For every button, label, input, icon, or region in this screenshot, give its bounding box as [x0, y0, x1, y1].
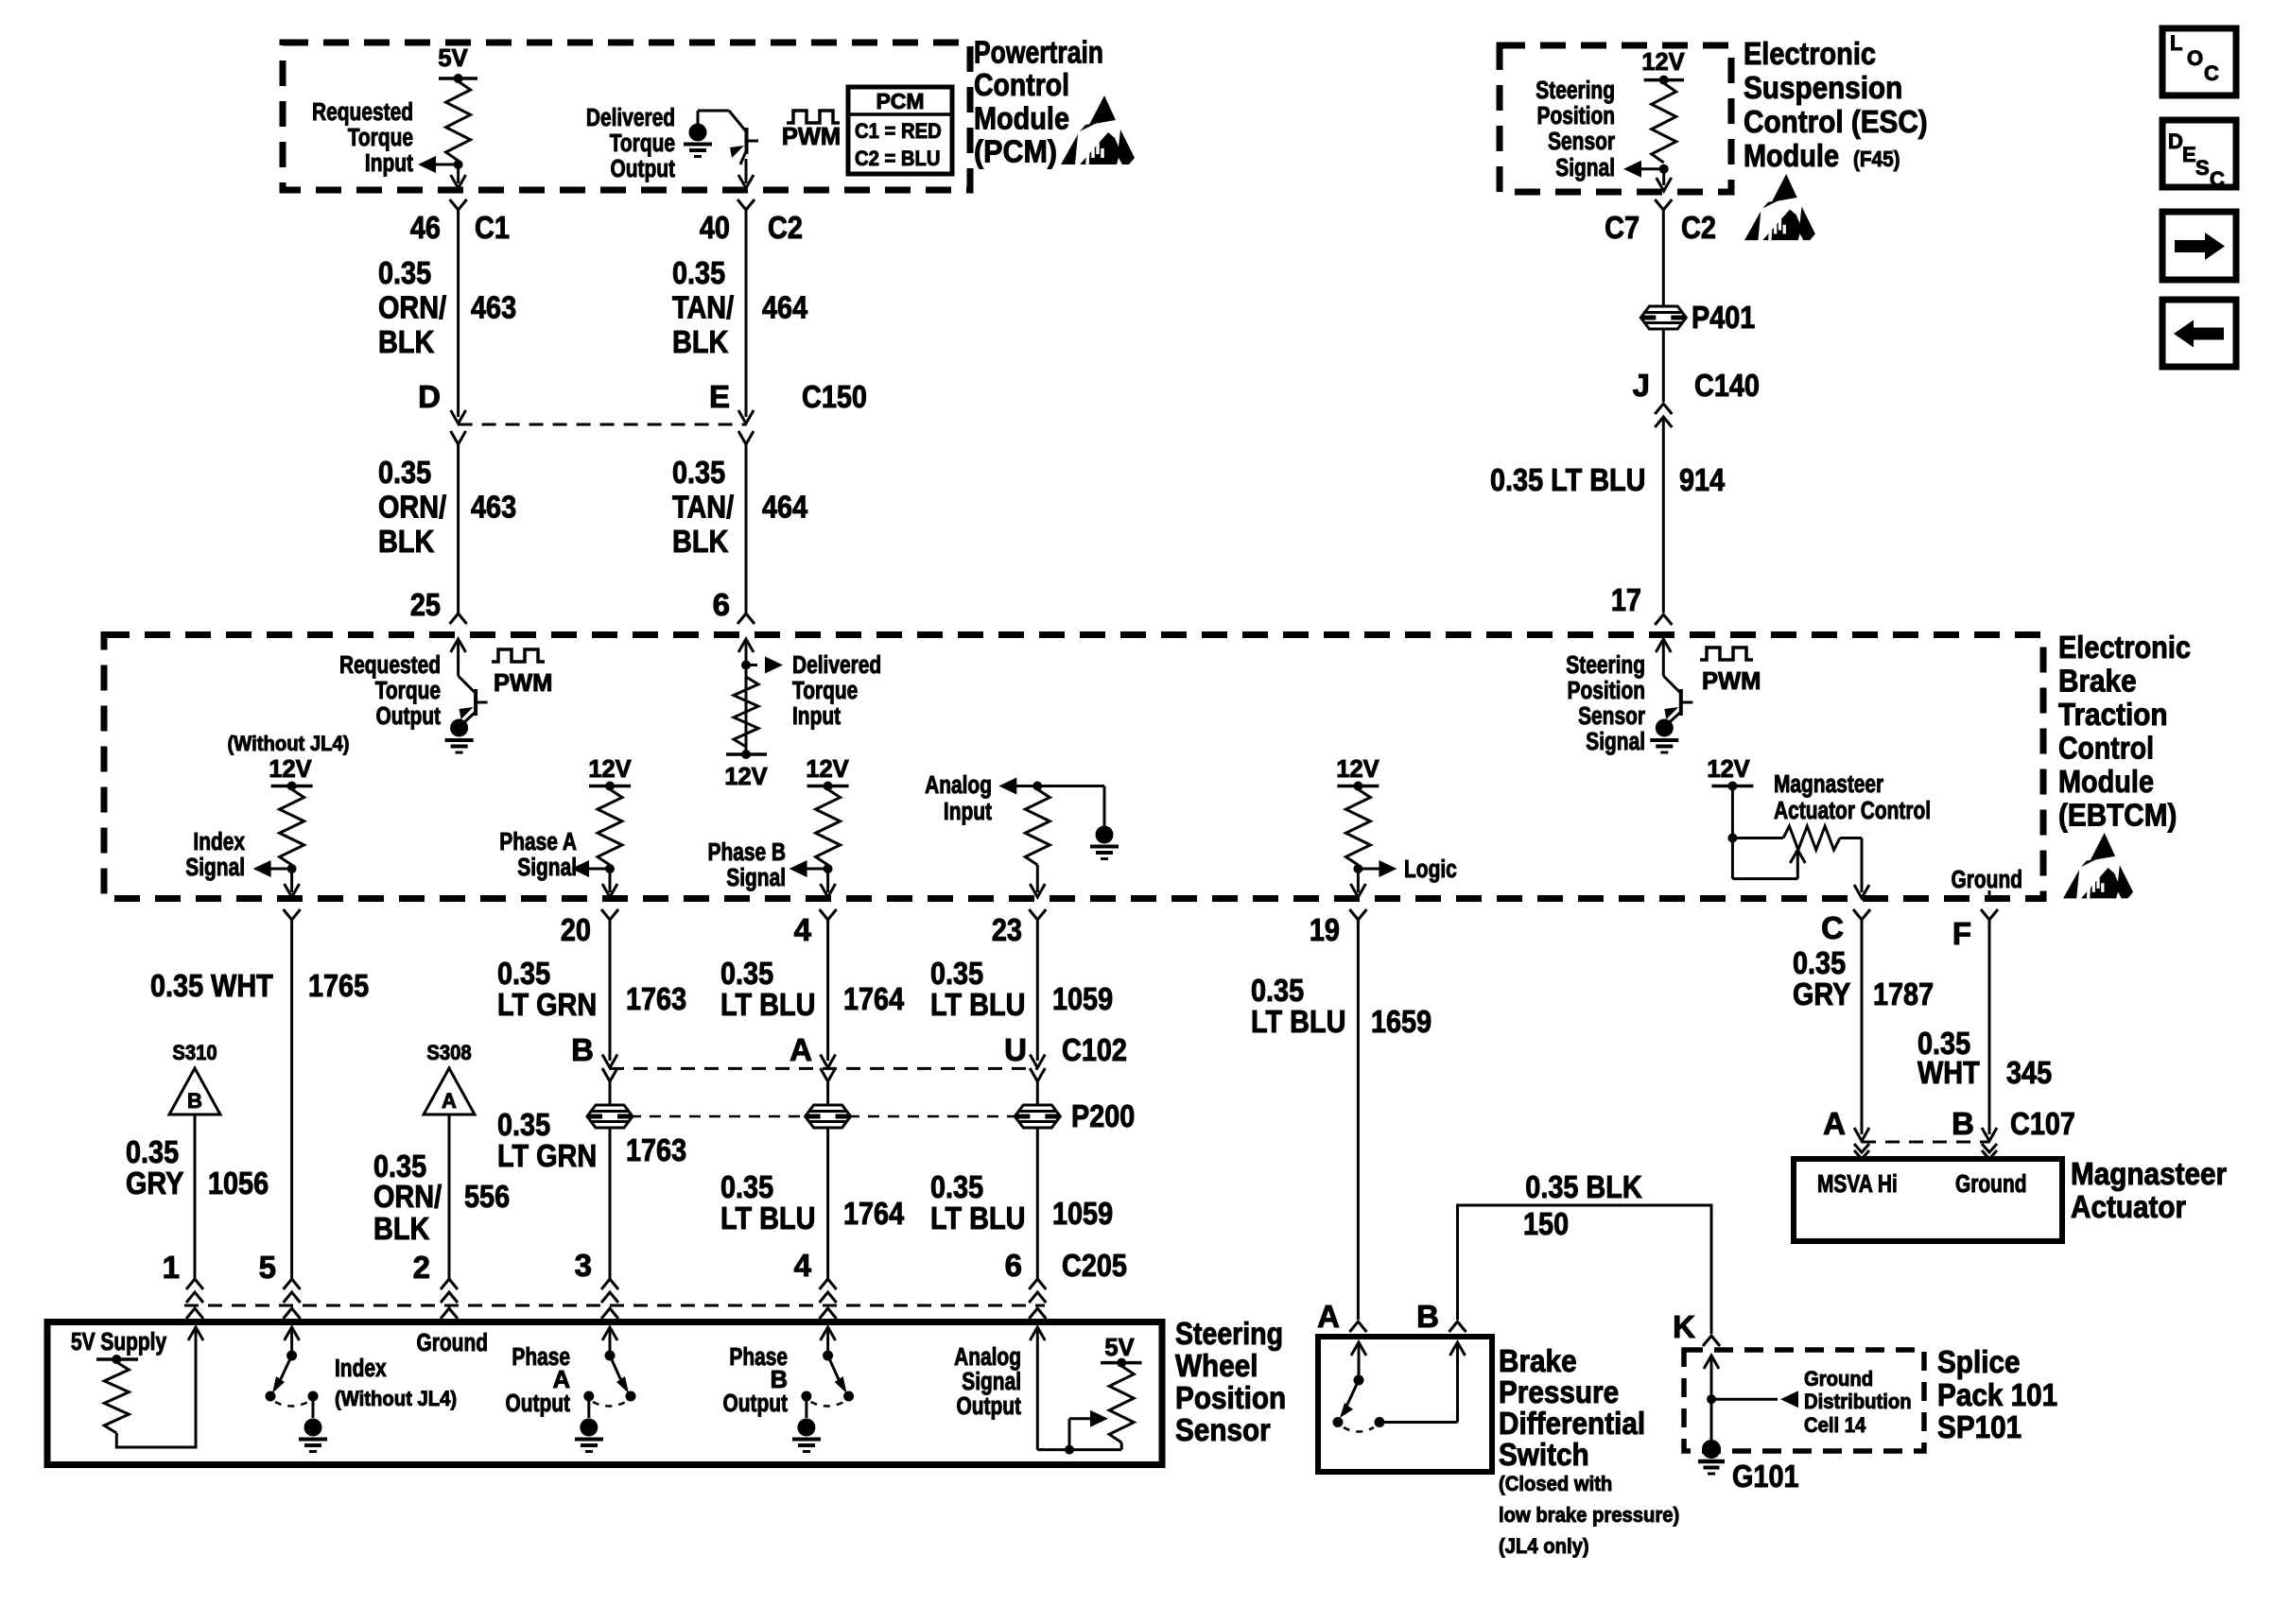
svg-text:3: 3 [575, 1248, 592, 1283]
wire: circuit 1059 lower [1036, 1128, 1039, 1279]
in-line connector C107 dashed line [1862, 1141, 1989, 1144]
svg-text:Sensor: Sensor [1548, 129, 1615, 155]
svg-text:Pressure: Pressure [1499, 1374, 1619, 1409]
junction dot on wire 463 [454, 160, 463, 169]
junction dot Phase A [605, 864, 615, 873]
module box: Electronic Brake Traction Control Module (EBTCM), dashed [104, 635, 2043, 899]
connector chevron BPDS pin A [1349, 1322, 1366, 1332]
svg-text:K: K [1673, 1309, 1695, 1344]
in-line connector C205 dashed line [184, 1304, 1045, 1307]
PCM connector table [848, 87, 952, 174]
wire: Analog pin exit [1036, 865, 1039, 892]
wire: circuit 1765 [290, 919, 293, 1279]
svg-text:Sensor: Sensor [1175, 1412, 1271, 1447]
connector symbol at PCM pin 40 [737, 199, 755, 210]
svg-text:A: A [553, 1367, 570, 1393]
in-line connector C102 dashed line [610, 1067, 1037, 1070]
P200 bead (Phase B) [806, 1105, 851, 1128]
button: arrow right [2162, 212, 2236, 280]
connector symbol at EBTCM pin 17 [1655, 614, 1672, 625]
svg-text:Signal: Signal [726, 865, 786, 891]
svg-text:Wheel: Wheel [1175, 1348, 1258, 1383]
svg-text:Ground: Ground [1804, 1367, 1873, 1391]
junction dot Phase B [824, 864, 833, 873]
svg-text:BLK: BLK [378, 524, 434, 559]
connector symbol below EBTCM (Phase A/pin20) [601, 909, 618, 920]
in-line connector P401 bead [1640, 306, 1686, 329]
resistor: Phase A Signal pull-up [598, 789, 622, 865]
resistor: PCM requested torque input pull-up [446, 81, 471, 161]
PWM squarewave glyph (PCM) [787, 111, 840, 123]
svg-text:Signal: Signal [1555, 155, 1615, 181]
svg-text:C140: C140 [1694, 368, 1760, 403]
svg-text:0.35: 0.35 [1793, 945, 1846, 980]
P200 bead (Analog) [1015, 1105, 1060, 1128]
connector chevrons at C205 pin 6 [1029, 1279, 1046, 1289]
signal arrow Phase A Signal [588, 868, 610, 871]
svg-text:A: A [1317, 1299, 1340, 1334]
svg-text:150: 150 [1523, 1206, 1569, 1241]
svg-text:5V: 5V [1104, 1335, 1134, 1361]
12V rail (Delivered Torque) [726, 752, 767, 756]
wire: circuit 1764 lower [826, 1128, 829, 1279]
svg-text:Actuator: Actuator [2071, 1189, 2186, 1224]
svg-text:BLK: BLK [373, 1211, 429, 1246]
wire: Phase A pin exit [609, 869, 612, 892]
svg-text:Index: Index [335, 1356, 387, 1382]
svg-text:A: A [789, 1032, 812, 1067]
wire: circuit 345 (ground) [1988, 919, 1991, 1134]
svg-text:P200: P200 [1071, 1098, 1135, 1133]
svg-text:Cell 14: Cell 14 [1804, 1413, 1866, 1437]
svg-text:S308: S308 [426, 1041, 471, 1064]
svg-text:C102: C102 [1062, 1032, 1127, 1067]
connector below C107 (A) [1854, 1144, 1869, 1152]
junction dot Delivered Torque Input [741, 661, 751, 670]
ESD sensitive device symbol (ESC) [1744, 174, 1815, 240]
svg-text:5V: 5V [438, 45, 467, 72]
svg-text:345: 345 [2006, 1055, 2052, 1090]
svg-text:12V: 12V [1336, 756, 1379, 783]
svg-text:PCM: PCM [876, 89, 924, 113]
connector symbol below EBTCM (Analog/pin23) [1029, 909, 1046, 920]
svg-text:PWM: PWM [494, 670, 552, 697]
module box: Electronic Suspension Control (ESC) Module, dashed [1500, 45, 1731, 192]
signal arrow Analog Input [1015, 785, 1037, 787]
PWM squarewave glyph (EBTCM left) [492, 649, 545, 662]
svg-text:Index: Index [193, 829, 245, 855]
svg-text:0.35: 0.35 [720, 956, 773, 991]
svg-text:23: 23 [992, 912, 1022, 947]
svg-text:0.35: 0.35 [378, 255, 431, 290]
connector symbol below EBTCM (Logic/pin19) [1349, 909, 1366, 920]
svg-text:1659: 1659 [1371, 1004, 1431, 1039]
svg-text:LT GRN: LT GRN [497, 987, 597, 1022]
wire: circuit 1787 (MSVA Hi) [1861, 919, 1864, 1134]
svg-text:C1 = RED: C1 = RED [855, 119, 942, 143]
svg-text:1059: 1059 [1052, 981, 1113, 1016]
connector chevrons at C205 pin 4 [820, 1279, 837, 1289]
svg-text:S310: S310 [172, 1041, 217, 1064]
svg-text:C2 = BLU: C2 = BLU [855, 147, 941, 170]
svg-text:C: C [1821, 910, 1844, 945]
svg-text:C150: C150 [802, 379, 867, 414]
svg-text:Control: Control [2058, 731, 2154, 766]
svg-text:6: 6 [1005, 1248, 1022, 1283]
connector below C102 (B) [602, 1068, 617, 1081]
svg-text:Delivered: Delivered [586, 105, 675, 131]
svg-text:Delivered: Delivered [792, 652, 881, 679]
svg-text:J: J [1633, 368, 1650, 403]
svg-text:4: 4 [794, 912, 812, 947]
svg-text:1: 1 [163, 1250, 180, 1285]
5V rail bar (PCM) [439, 77, 477, 80]
svg-text:Steering: Steering [1566, 652, 1645, 679]
wire: Logic pin exit [1357, 869, 1360, 892]
connector chevrons at C205 pin 2 [441, 1279, 458, 1289]
svg-text:4: 4 [794, 1248, 812, 1283]
svg-text:BLK: BLK [378, 324, 434, 359]
svg-text:12V: 12V [1707, 756, 1749, 783]
svg-text:Output: Output [723, 1391, 789, 1417]
wire: circuit 914 lower segment [1662, 417, 1665, 613]
svg-text:S: S [2195, 156, 2210, 180]
junction dot Analog Input [1032, 782, 1042, 791]
svg-text:1059: 1059 [1052, 1196, 1113, 1231]
svg-text:LT BLU: LT BLU [930, 987, 1025, 1022]
svg-text:Electronic: Electronic [2058, 630, 2191, 665]
svg-text:Torque: Torque [610, 130, 675, 157]
potentiometer: Magnasteer actuator control [1732, 837, 1783, 839]
svg-text:A: A [442, 1089, 457, 1113]
svg-text:F: F [1952, 916, 1971, 951]
wire: Magnasteer control node [1731, 786, 1734, 879]
svg-text:Suspension: Suspension [1744, 70, 1902, 105]
junction dot (splice) [1707, 1394, 1716, 1404]
svg-text:(F45): (F45) [1853, 147, 1900, 171]
connector chevrons at C205 pin 5 [284, 1279, 301, 1289]
svg-text:46: 46 [410, 210, 441, 245]
svg-text:Input: Input [944, 799, 993, 825]
svg-text:Ground: Ground [1955, 1171, 2027, 1198]
svg-text:40: 40 [700, 210, 730, 245]
module box: Powertrain Control Module (PCM), dashed [283, 43, 970, 190]
svg-text:1763: 1763 [626, 1132, 686, 1167]
svg-text:Control: Control [974, 67, 1069, 102]
svg-text:(JL4 only): (JL4 only) [1499, 1534, 1589, 1558]
connector symbol at EBTCM pin 6 [737, 613, 755, 624]
svg-text:1764: 1764 [843, 1196, 905, 1231]
svg-text:Requested: Requested [339, 652, 441, 679]
svg-text:PWM: PWM [1702, 668, 1761, 695]
svg-text:Traction: Traction [2058, 697, 2168, 732]
junction dot Index [287, 864, 297, 873]
svg-text:GRY: GRY [1793, 976, 1850, 1011]
ground G101 [1702, 1440, 1721, 1459]
svg-text:Splice: Splice [1937, 1344, 2021, 1379]
svg-text:Position: Position [1537, 103, 1616, 130]
signal arrow Delivered Torque Input [746, 664, 757, 666]
svg-text:1763: 1763 [626, 981, 686, 1016]
svg-text:12V: 12V [806, 756, 848, 783]
svg-text:20: 20 [561, 912, 591, 947]
svg-text:SP101: SP101 [1937, 1409, 2021, 1444]
svg-text:Requested: Requested [312, 99, 413, 126]
svg-text:(Without JL4): (Without JL4) [227, 732, 349, 755]
junction dot (ESC) [1659, 164, 1669, 174]
5V rail (SWPS pot) [1101, 1361, 1142, 1365]
wire: 1059 to P200 [1036, 1081, 1039, 1105]
svg-text:C107: C107 [2010, 1106, 2075, 1141]
svg-text:Torque: Torque [792, 678, 858, 704]
svg-text:0.35: 0.35 [1251, 973, 1304, 1008]
module box: Splice Pack 101, dashed [1684, 1350, 1924, 1451]
12V rail (Phase B) [807, 785, 849, 788]
svg-text:1764: 1764 [843, 981, 905, 1016]
svg-text:556: 556 [464, 1179, 510, 1214]
connector symbol at EBTCM pin 25 [450, 613, 467, 624]
switch: Phase B output (SWPS) [821, 1327, 836, 1340]
svg-text:D: D [2168, 130, 2183, 153]
svg-text:Electronic: Electronic [1744, 36, 1876, 71]
svg-text:463: 463 [471, 289, 516, 324]
svg-text:Signal: Signal [962, 1369, 1021, 1395]
svg-text:E: E [2182, 143, 2196, 166]
svg-text:(Without JL4): (Without JL4) [335, 1387, 457, 1410]
wire to ground (Analog) [1037, 785, 1104, 787]
resistor: SWPS 5V supply [104, 1362, 129, 1433]
wire/arrow: Delivered Torque Input entry [738, 639, 754, 652]
svg-text:PWM: PWM [782, 124, 841, 150]
wire: Phase B pin exit [826, 869, 829, 892]
svg-text:0.35: 0.35 [672, 455, 725, 490]
svg-text:ORN/: ORN/ [378, 489, 446, 524]
wire: circuit 914 upper segment [1662, 210, 1665, 306]
signal arrow: Steering Position Sensor Signal (ESC) [1641, 167, 1664, 170]
svg-text:LT BLU: LT BLU [720, 1201, 815, 1235]
wire: circuit 150 (0.35 BLK) [1458, 1205, 1712, 1334]
svg-text:(Closed with: (Closed with [1499, 1472, 1612, 1495]
ESD sensitive device symbol (PCM) [1061, 95, 1135, 164]
resistor: steering position sensor pull-up (ESC) [1652, 83, 1676, 163]
svg-text:Brake: Brake [1499, 1343, 1577, 1378]
in-line connector C150 dashed line [459, 423, 746, 426]
connector chevrons at C205 pin 1 [186, 1279, 203, 1289]
svg-text:E: E [709, 379, 730, 414]
svg-text:(PCM): (PCM) [974, 134, 1057, 169]
12V rail (Magnasteer) [1711, 785, 1753, 788]
wire/arrow: splice pack K entry [1704, 1356, 1719, 1369]
splice S308 triangle [424, 1068, 475, 1114]
5V rail (SWPS supply) [96, 1357, 138, 1361]
wire: Index pin exit [290, 869, 293, 892]
in-line connector P200 dashed line [610, 1115, 1037, 1118]
svg-text:Torque: Torque [348, 125, 413, 151]
svg-text:B: B [771, 1367, 788, 1393]
connector symbol below C150 (E) [738, 431, 754, 444]
button: LOC [2162, 28, 2236, 95]
svg-text:B: B [571, 1032, 594, 1067]
module box: Steering Wheel Position Sensor [47, 1322, 1162, 1465]
connector symbol below EBTCM (Phase B/pin4) [820, 909, 837, 920]
wire: circuit 464 lower segment [745, 444, 748, 613]
wire: circuit 1056 [194, 1114, 197, 1279]
svg-text:ORN/: ORN/ [373, 1179, 442, 1214]
arrow into C150 at E [738, 410, 754, 423]
svg-text:C2: C2 [1681, 210, 1716, 245]
svg-text:0.35: 0.35 [672, 255, 725, 290]
ground (Analog Input) [1096, 826, 1114, 844]
resistor: Phase B Signal pull-up [816, 789, 841, 865]
connector chevron splice pin K [1703, 1336, 1720, 1346]
wire: circuit 1659 [1357, 919, 1360, 1320]
svg-text:Switch: Switch [1499, 1437, 1589, 1472]
12V rail bar (ESC) [1644, 78, 1684, 82]
svg-text:Ground: Ground [1952, 867, 2023, 893]
svg-text:Differential: Differential [1499, 1406, 1645, 1441]
svg-text:Input: Input [365, 150, 414, 177]
svg-text:Torque: Torque [375, 678, 441, 704]
svg-text:C205: C205 [1062, 1248, 1127, 1283]
svg-text:5V Supply: 5V Supply [71, 1329, 167, 1356]
wire: circuit 914 mid segment [1662, 329, 1665, 402]
svg-text:Output: Output [611, 156, 676, 182]
svg-text:B: B [1952, 1106, 1974, 1141]
svg-text:0.35 BLK: 0.35 BLK [1525, 1169, 1642, 1204]
connector chevrons at C205 pin 3 [601, 1279, 618, 1289]
ground (PCM delivered torque) [689, 124, 707, 142]
signal arrow Phase B Signal [807, 868, 828, 871]
wire to ground distribution [1711, 1398, 1778, 1401]
svg-text:C: C [2210, 167, 2225, 191]
wire: circuit 556 [448, 1114, 451, 1279]
svg-text:C: C [2204, 61, 2219, 85]
potentiometer: analog signal output [1030, 1327, 1045, 1340]
svg-text:463: 463 [471, 489, 516, 524]
svg-text:Analog: Analog [925, 772, 992, 799]
svg-text:0.35: 0.35 [126, 1134, 179, 1169]
wire: ESC pin exit [1662, 169, 1665, 185]
switch: Index output (SWPS) [285, 1327, 300, 1340]
svg-text:TAN/: TAN/ [672, 489, 734, 524]
svg-text:17: 17 [1611, 582, 1641, 617]
svg-text:D: D [418, 379, 441, 414]
connector symbol below C150 (D) [451, 431, 466, 444]
svg-text:Position: Position [1175, 1380, 1286, 1415]
svg-text:Output: Output [376, 703, 442, 730]
connector below C102 (A) [821, 1068, 836, 1081]
svg-text:Sensor: Sensor [1578, 703, 1645, 730]
svg-text:B: B [1416, 1299, 1439, 1334]
resistor: Delivered Torque Input [734, 677, 758, 747]
wire: circuit 463 lower segment [457, 444, 460, 613]
splice S310 triangle [169, 1068, 220, 1114]
svg-text:Analog: Analog [954, 1344, 1021, 1371]
svg-text:12V: 12V [1641, 49, 1684, 76]
svg-text:Output: Output [957, 1393, 1022, 1420]
svg-text:L: L [2170, 31, 2182, 55]
svg-text:LT BLU: LT BLU [720, 987, 815, 1022]
PWM squarewave glyph (EBTCM right) [1700, 648, 1753, 660]
svg-text:12V: 12V [724, 764, 767, 790]
svg-text:O: O [2187, 46, 2203, 70]
svg-text:0.35: 0.35 [497, 956, 550, 991]
svg-text:Signal: Signal [517, 855, 577, 881]
12V rail (Index) [271, 785, 313, 788]
button: DESC [2162, 120, 2236, 187]
connector C140 double chevron [1655, 404, 1672, 414]
svg-text:0.35 LT BLU: 0.35 LT BLU [1490, 462, 1646, 497]
resistor: Analog Input [1025, 789, 1050, 865]
svg-text:A: A [1823, 1106, 1846, 1141]
svg-text:0.35: 0.35 [497, 1107, 550, 1142]
connector symbol below EBTCM (Index/pin5) [284, 909, 301, 920]
transistor: Steering Position Sensor Signal PWM driver [1656, 639, 1671, 652]
svg-text:Signal: Signal [185, 855, 245, 881]
module box: Magnasteer Actuator [1794, 1159, 2062, 1241]
svg-text:19: 19 [1310, 912, 1340, 947]
svg-text:Steering: Steering [1536, 78, 1615, 104]
svg-text:12V: 12V [588, 756, 631, 783]
wire: circuit 464 upper segment [745, 210, 748, 417]
svg-text:Brake: Brake [2058, 664, 2137, 699]
svg-text:464: 464 [762, 489, 808, 524]
svg-text:Magnasteer: Magnasteer [2071, 1156, 2227, 1191]
connector symbol below EBTCM (Ground/pinF) [1981, 909, 1998, 920]
resistor: Logic pull-up [1345, 789, 1370, 865]
signal arrow Index Signal [270, 868, 292, 871]
junction dot Logic [1353, 864, 1362, 873]
svg-text:Steering: Steering [1175, 1316, 1283, 1351]
wire: circuit 1763 lower [609, 1128, 612, 1279]
connector symbol at ESC pin C7 [1655, 199, 1672, 210]
wire: SWPS supply loop [116, 1327, 196, 1447]
wire: EBTCM ground pin F stub [1988, 890, 1991, 898]
svg-text:914: 914 [1679, 462, 1726, 497]
svg-text:6: 6 [713, 587, 730, 622]
ESD sensitive device symbol (EBTCM) [2063, 833, 2133, 898]
arrow into C150 at D [451, 410, 466, 423]
connector symbol at PCM pin 46 [450, 199, 467, 210]
svg-text:1765: 1765 [308, 968, 369, 1003]
svg-text:P401: P401 [1692, 300, 1755, 335]
svg-text:25: 25 [410, 587, 441, 622]
svg-text:C7: C7 [1605, 210, 1640, 245]
svg-text:(EBTCM): (EBTCM) [2058, 798, 2177, 833]
svg-text:0.35: 0.35 [720, 1169, 773, 1204]
svg-text:MSVA Hi: MSVA Hi [1817, 1171, 1898, 1198]
svg-text:LT BLU: LT BLU [1251, 1004, 1345, 1039]
switch: Phase A output (SWPS) [602, 1327, 617, 1340]
signal arrow Logic [1358, 868, 1379, 871]
svg-text:GRY: GRY [126, 1166, 183, 1201]
svg-text:464: 464 [762, 289, 808, 324]
transistor: PCM PWM output driver [729, 111, 746, 131]
connector below C102 (U) [1030, 1068, 1045, 1081]
svg-text:WHT: WHT [1917, 1055, 1980, 1090]
svg-text:Powertrain: Powertrain [974, 35, 1103, 70]
wire: circuit 1059 upper [1036, 919, 1039, 1061]
12V rail (Phase A) [589, 785, 631, 788]
svg-text:Position: Position [1568, 678, 1646, 704]
wire: circuit 1763 upper [609, 919, 612, 1061]
switch: brake pressure differential [1351, 1342, 1366, 1356]
svg-text:Ground: Ground [417, 1330, 489, 1356]
svg-text:0.35: 0.35 [378, 455, 431, 490]
svg-text:Magnasteer: Magnasteer [1774, 771, 1883, 798]
svg-text:LT BLU: LT BLU [930, 1201, 1025, 1235]
svg-text:12V: 12V [269, 756, 311, 783]
